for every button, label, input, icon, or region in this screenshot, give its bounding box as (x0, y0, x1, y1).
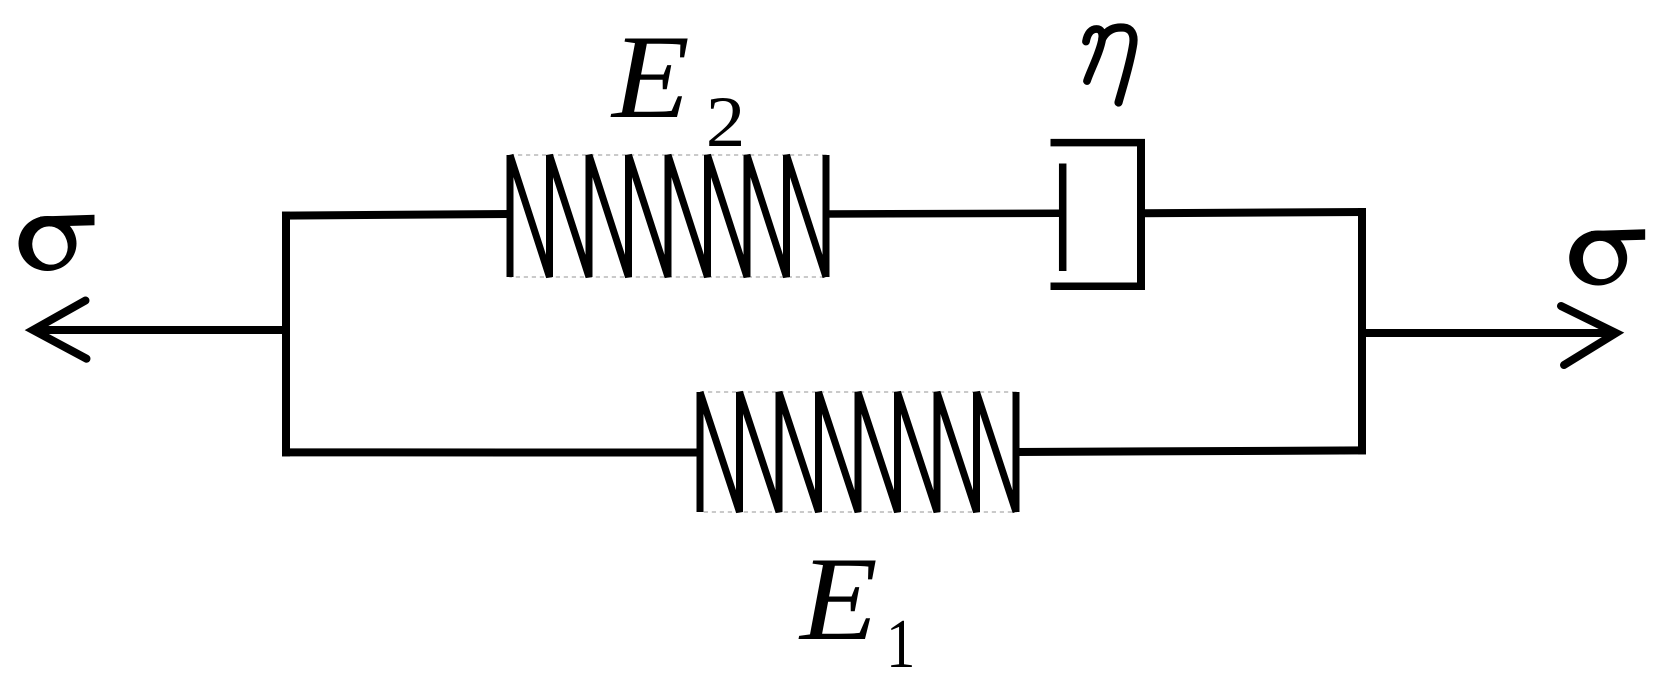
label eta (1086, 27, 1134, 102)
label E2 (610, 10, 745, 162)
wire top left segment (282, 214, 512, 216)
label sigma right (1569, 229, 1645, 285)
label E1 (798, 532, 915, 682)
wire bottom left segment (282, 448, 700, 456)
label sigma left (19, 215, 95, 271)
spring E2 (510, 155, 826, 277)
wire top right segment (1141, 212, 1366, 213)
svg-text:E: E (610, 10, 690, 143)
wire bottom right segment (1014, 450, 1366, 452)
stress arrow left (33, 301, 286, 359)
svg-text:2: 2 (706, 83, 746, 162)
wire right vertical (1358, 208, 1366, 454)
spring E1 (700, 392, 1016, 512)
svg-text:E: E (798, 532, 878, 665)
stress arrow right (1362, 306, 1616, 365)
wire left vertical (282, 212, 290, 457)
wire top middle segment (824, 210, 1060, 218)
svg-text:1: 1 (886, 604, 915, 682)
dashpot eta (1051, 143, 1146, 287)
